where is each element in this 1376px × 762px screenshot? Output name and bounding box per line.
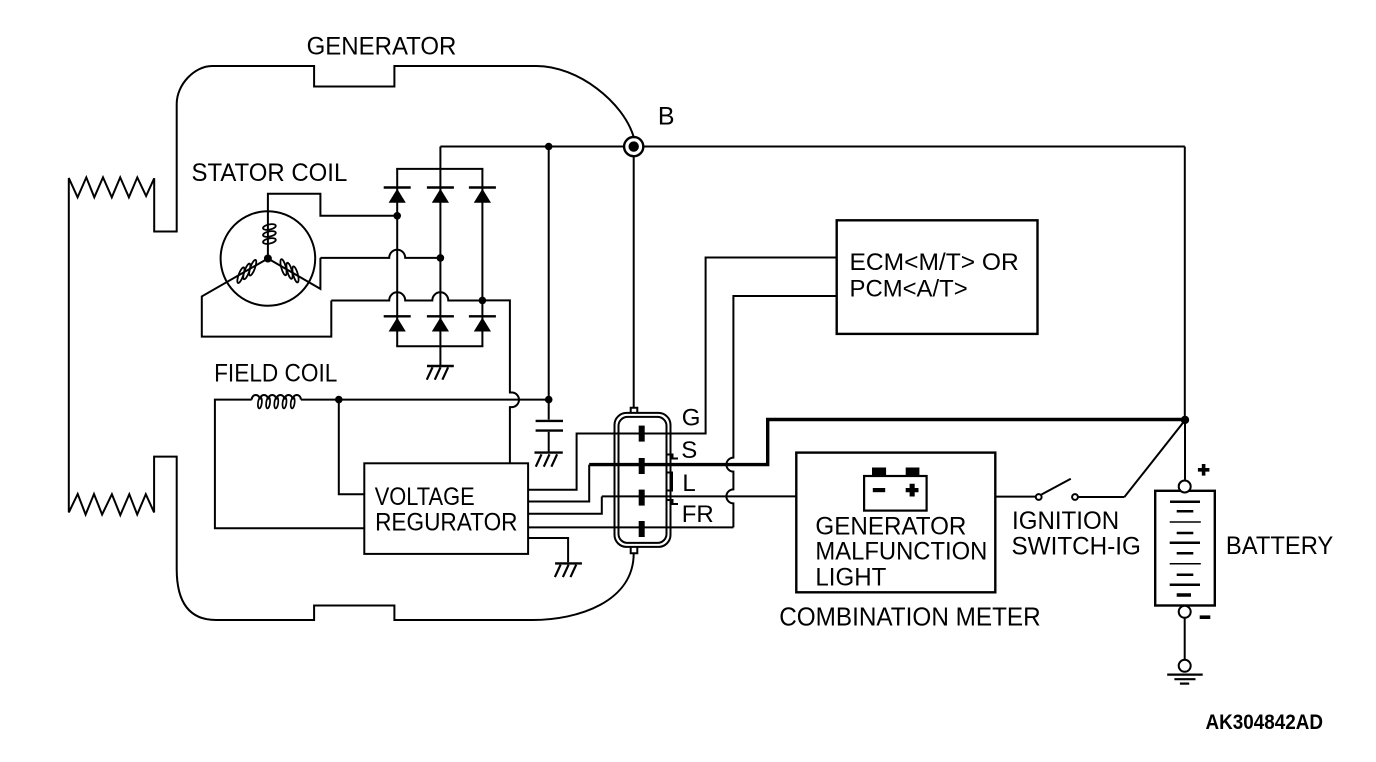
diode D6 (bottom col3)	[469, 316, 496, 331]
battery ground terminal circle	[1179, 660, 1191, 672]
wire diagonal to battery junction	[1124, 420, 1185, 497]
lamp icon right tab	[906, 468, 920, 477]
wire regulator G feed to connector pin G	[528, 434, 642, 490]
connector key tab near FR	[667, 500, 678, 504]
svg-text:PCM<A/T>: PCM<A/T>	[850, 276, 968, 303]
label battery minus	[1200, 615, 1211, 619]
node battery feeder junction	[1181, 416, 1189, 424]
svg-text:FR: FR	[682, 501, 714, 528]
stator phase V coil loops	[236, 259, 258, 284]
svg-text:FIELD COIL: FIELD COIL	[214, 359, 337, 387]
battery body	[1155, 491, 1215, 606]
connector pin FR	[639, 521, 645, 537]
battery plus terminal	[1179, 481, 1191, 493]
connector top tab	[631, 408, 638, 413]
wire stator W to rectifier mid row (hop over col1)	[320, 250, 440, 258]
label battery plus	[1198, 464, 1210, 476]
switch left contact	[1036, 494, 1042, 500]
wire ECM line 1 to G row	[642, 258, 837, 434]
wire switch to diagonal	[1078, 496, 1124, 498]
svg-text:BATTERY: BATTERY	[1226, 532, 1334, 560]
node rectifier col2 mid junction	[437, 254, 445, 262]
svg-text:SWITCH-IG: SWITCH-IG	[1012, 533, 1141, 561]
wire field junction to regulator	[339, 400, 365, 495]
svg-text:REGURATOR: REGURATOR	[375, 508, 517, 536]
ground (regulator)	[555, 563, 582, 577]
svg-text:B: B	[658, 102, 675, 130]
connector pin S	[639, 458, 645, 474]
svg-text:GENERATOR: GENERATOR	[307, 32, 457, 60]
connector key bracket near L	[668, 473, 673, 491]
switch right contact	[1072, 494, 1078, 500]
stator phase V wire (lower left)	[202, 259, 331, 337]
svg-text:MALFUNCTION: MALFUNCTION	[815, 538, 987, 566]
capacitor C1 plates	[536, 421, 563, 431]
lamp icon body	[864, 476, 927, 511]
wire right feeder vertical to battery junction	[1184, 147, 1186, 420]
wire regulator FR row straight to ECM drop	[528, 526, 733, 528]
diode D3 (top col3)	[469, 188, 496, 203]
field coil inductor humps	[252, 395, 301, 400]
wire field coil to capacitor node (hop over regulator feed)	[301, 399, 549, 401]
ground (capacitor)	[535, 453, 563, 467]
stator coil circle	[221, 211, 316, 306]
connector key tab near S	[667, 455, 678, 459]
capacitor ground lead	[548, 432, 550, 452]
switch lever	[1042, 479, 1071, 495]
wire L row (through connector, hop over FR line, to lamp)	[602, 495, 797, 497]
lamp icon minus mark	[873, 488, 885, 492]
diode D2 (top col2)	[427, 188, 454, 203]
rectifier top bus	[396, 168, 483, 170]
wire ECM line 2 to FR row	[726, 296, 836, 527]
connector outer shell	[615, 413, 671, 547]
stator phase U coil loops	[263, 223, 277, 245]
svg-text:GENERATOR: GENERATOR	[815, 513, 966, 541]
diode D5 (bottom col2)	[427, 316, 454, 331]
connector bottom tab	[631, 547, 638, 553]
svg-text:S: S	[681, 437, 697, 464]
wire lamp to switch	[995, 496, 1035, 498]
voltage regulator box U1	[364, 463, 528, 554]
node rectifier col3 junction	[479, 297, 487, 305]
svg-text:L: L	[682, 470, 695, 497]
svg-text:ECM<M/T> OR: ECM<M/T> OR	[850, 249, 1019, 276]
diode D4 (bottom col1)	[384, 316, 411, 331]
wire B vertical (case edge from B terminal to connector)	[633, 156, 635, 408]
node rectifier col1 top-phase junction	[393, 212, 401, 220]
wire junction to battery plus	[1184, 420, 1186, 480]
battery minus terminal	[1179, 606, 1191, 618]
wire regulator S feed	[528, 465, 589, 502]
wire rectifier ground lead	[439, 346, 441, 365]
wire B output line	[440, 146, 1184, 148]
generator case outline (with brush zigzags)	[69, 66, 634, 620]
stator phase U wire (top)	[268, 194, 397, 259]
field coil left lead to regulator	[215, 400, 364, 529]
rectifier column 2	[439, 147, 441, 347]
combination meter box	[796, 453, 995, 593]
node capacitor junction	[545, 396, 553, 404]
connector pin L	[639, 490, 645, 506]
ground (rectifier)	[427, 366, 454, 380]
wire capacitor feeder vertical	[548, 147, 550, 420]
connector inner shell	[619, 417, 667, 543]
terminal B ring	[624, 137, 643, 156]
battery plates	[1170, 502, 1201, 595]
rectifier bottom bus	[396, 345, 483, 347]
stator phase W coil loops	[279, 259, 300, 283]
wire S row thick (through connector, hop over FR line, to battery junction)	[589, 420, 1185, 465]
svg-text:AK304842AD: AK304842AD	[1206, 711, 1324, 734]
node field coil junction	[335, 396, 343, 404]
stator phase W wire (lower right)	[268, 258, 321, 289]
svg-text:LIGHT: LIGHT	[815, 564, 886, 592]
lamp icon left tab	[872, 468, 886, 477]
wire regulator L feed	[528, 497, 602, 514]
rectifier column 3	[481, 169, 483, 346]
connector pin G	[639, 426, 645, 442]
lamp icon plus mark	[906, 484, 919, 497]
svg-text:IGNITION: IGNITION	[1012, 507, 1119, 535]
rectifier column 1	[396, 169, 398, 346]
svg-text:G: G	[682, 404, 701, 431]
node junction on B line	[545, 143, 553, 151]
svg-text:VOLTAGE: VOLTAGE	[375, 483, 475, 511]
wire regulator ground lead	[528, 538, 568, 562]
ECM box	[837, 220, 1038, 334]
wire stator V to rectifier bottom row (hops over col1,col2)	[331, 292, 482, 300]
field coil hanging loops	[257, 397, 295, 409]
svg-text:STATOR COIL: STATOR COIL	[192, 159, 348, 187]
node stator neutral dot	[264, 255, 272, 263]
svg-text:COMBINATION METER: COMBINATION METER	[779, 601, 1040, 631]
wire battery minus to ground	[1184, 618, 1186, 660]
diode D1 (top col1)	[384, 188, 411, 203]
wire rectifier col3 to regulator (vertical)	[482, 300, 519, 463]
ground (battery)	[1167, 675, 1203, 684]
